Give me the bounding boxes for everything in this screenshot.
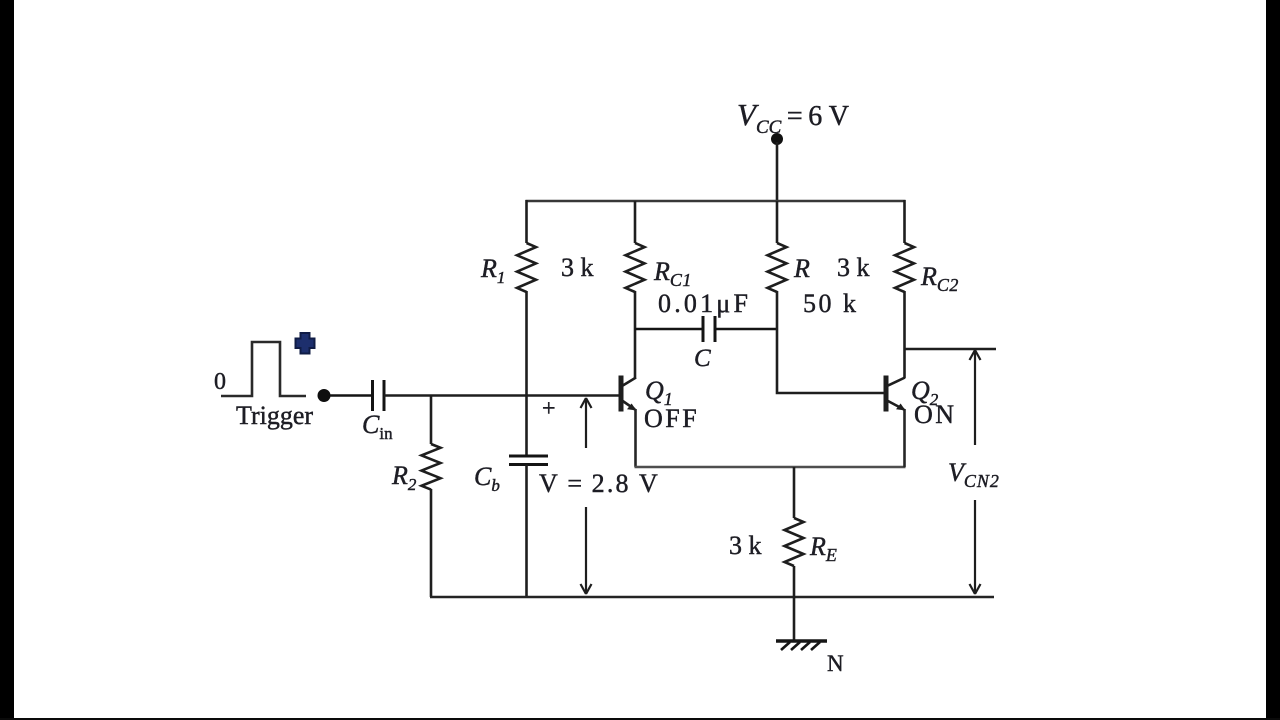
label 3k right xyxy=(837,253,870,282)
label Trigger xyxy=(236,401,313,430)
wire RE bottom lead xyxy=(793,566,796,597)
svg-text:OFF: OFF xyxy=(644,404,699,433)
capacitor Cin xyxy=(373,380,385,411)
resistor RE xyxy=(785,518,804,566)
label plus sign annotation xyxy=(542,396,556,422)
label 0 xyxy=(214,369,226,395)
wire bottom rail xyxy=(430,596,994,599)
wire cap C right segment xyxy=(715,328,777,331)
label Cin xyxy=(362,410,393,443)
label 3k RE xyxy=(729,531,762,560)
wire R top lead from rail xyxy=(776,201,779,243)
label ON xyxy=(914,400,957,429)
svg-text:0.01μF: 0.01μF xyxy=(658,289,751,318)
label N xyxy=(827,651,844,676)
svg-text:+: + xyxy=(542,396,556,422)
label 50k xyxy=(803,289,859,318)
label R1 xyxy=(480,254,505,287)
left black pillar xyxy=(0,0,14,720)
wire R1 bottom lead down to base wire and Cb xyxy=(525,291,528,456)
label Q1 xyxy=(645,376,673,409)
label VCN2 xyxy=(948,458,1000,491)
wire Cb bottom lead xyxy=(525,465,528,598)
label RE xyxy=(809,532,837,565)
svg-text:VCC = 6 V: VCC = 6 V xyxy=(737,97,849,138)
label RC1 xyxy=(653,257,692,290)
svg-text:C: C xyxy=(694,345,711,372)
svg-text:Trigger: Trigger xyxy=(236,401,313,430)
wire R2 top lead xyxy=(430,396,433,445)
label Q2 xyxy=(911,376,939,409)
wire Vcc down to rail xyxy=(776,142,779,201)
svg-text:V = 2.8 V: V = 2.8 V xyxy=(539,469,660,498)
label C xyxy=(694,345,711,372)
svg-text:ON: ON xyxy=(914,400,957,429)
label V = 2.8 V xyxy=(539,469,660,498)
capacitor Cb xyxy=(509,456,548,465)
svg-text:0: 0 xyxy=(214,369,226,395)
wire Q2 emitter xyxy=(903,409,906,467)
resistor RC1 xyxy=(626,243,645,292)
wire Cin to Q1 base xyxy=(384,394,619,397)
wire RE top lead from emitter rail xyxy=(793,467,796,518)
svg-text:R: R xyxy=(793,254,810,283)
label Cb xyxy=(474,462,500,495)
resistor R 50k xyxy=(768,243,787,292)
resistor R1 xyxy=(517,243,536,292)
wire R2 bottom lead xyxy=(430,489,433,597)
Vcc node dot xyxy=(771,133,783,145)
wire dot to Cin xyxy=(330,394,372,397)
svg-text:N: N xyxy=(827,651,844,676)
wire Q1 emitter down xyxy=(634,409,637,467)
label OFF xyxy=(644,404,699,433)
Vcc label xyxy=(737,97,849,138)
right black pillar xyxy=(1266,0,1280,720)
transistor Q1 xyxy=(621,376,637,412)
ground symbol xyxy=(776,641,827,650)
wire RC1 top lead xyxy=(634,201,637,243)
arrow down VCN2 xyxy=(970,500,981,594)
resistor R2 xyxy=(422,444,441,490)
bottom black strip xyxy=(0,718,1280,720)
label R2 xyxy=(391,461,417,494)
arrow up VCN2 xyxy=(970,350,981,445)
wire RC2 bottom lead down to Q2 collector xyxy=(903,291,906,378)
label 3k left xyxy=(561,253,594,282)
arrow up V2.8 xyxy=(581,398,592,448)
label 0.01uF xyxy=(658,289,751,318)
arrow down V2.8 xyxy=(581,507,592,594)
label R xyxy=(793,254,810,283)
label RC2 xyxy=(920,262,959,295)
wire emitter rail xyxy=(635,466,906,469)
transistor Q2 xyxy=(886,376,906,412)
wire R1 top lead xyxy=(525,200,528,243)
wire top rail xyxy=(526,200,906,203)
wire RC1 bottom lead down to Q1 collector xyxy=(634,291,637,378)
capacitor C xyxy=(703,316,715,342)
trigger pulse waveform xyxy=(221,342,306,396)
wire RC2 top lead xyxy=(903,200,906,243)
svg-text:3 k: 3 k xyxy=(729,531,762,560)
wire rail to ground xyxy=(793,597,796,641)
wire cap C left segment xyxy=(635,328,703,331)
trigger node dot xyxy=(318,389,331,402)
svg-text:3 k: 3 k xyxy=(837,253,870,282)
wire output line to VCN2 xyxy=(905,348,997,351)
svg-text:3 k: 3 k xyxy=(561,253,594,282)
svg-text:50 k: 50 k xyxy=(803,289,859,318)
wire R bottom lead down then right to Q2 base xyxy=(777,291,884,393)
resistor RC2 xyxy=(895,243,914,292)
blue plus marker xyxy=(296,333,315,354)
